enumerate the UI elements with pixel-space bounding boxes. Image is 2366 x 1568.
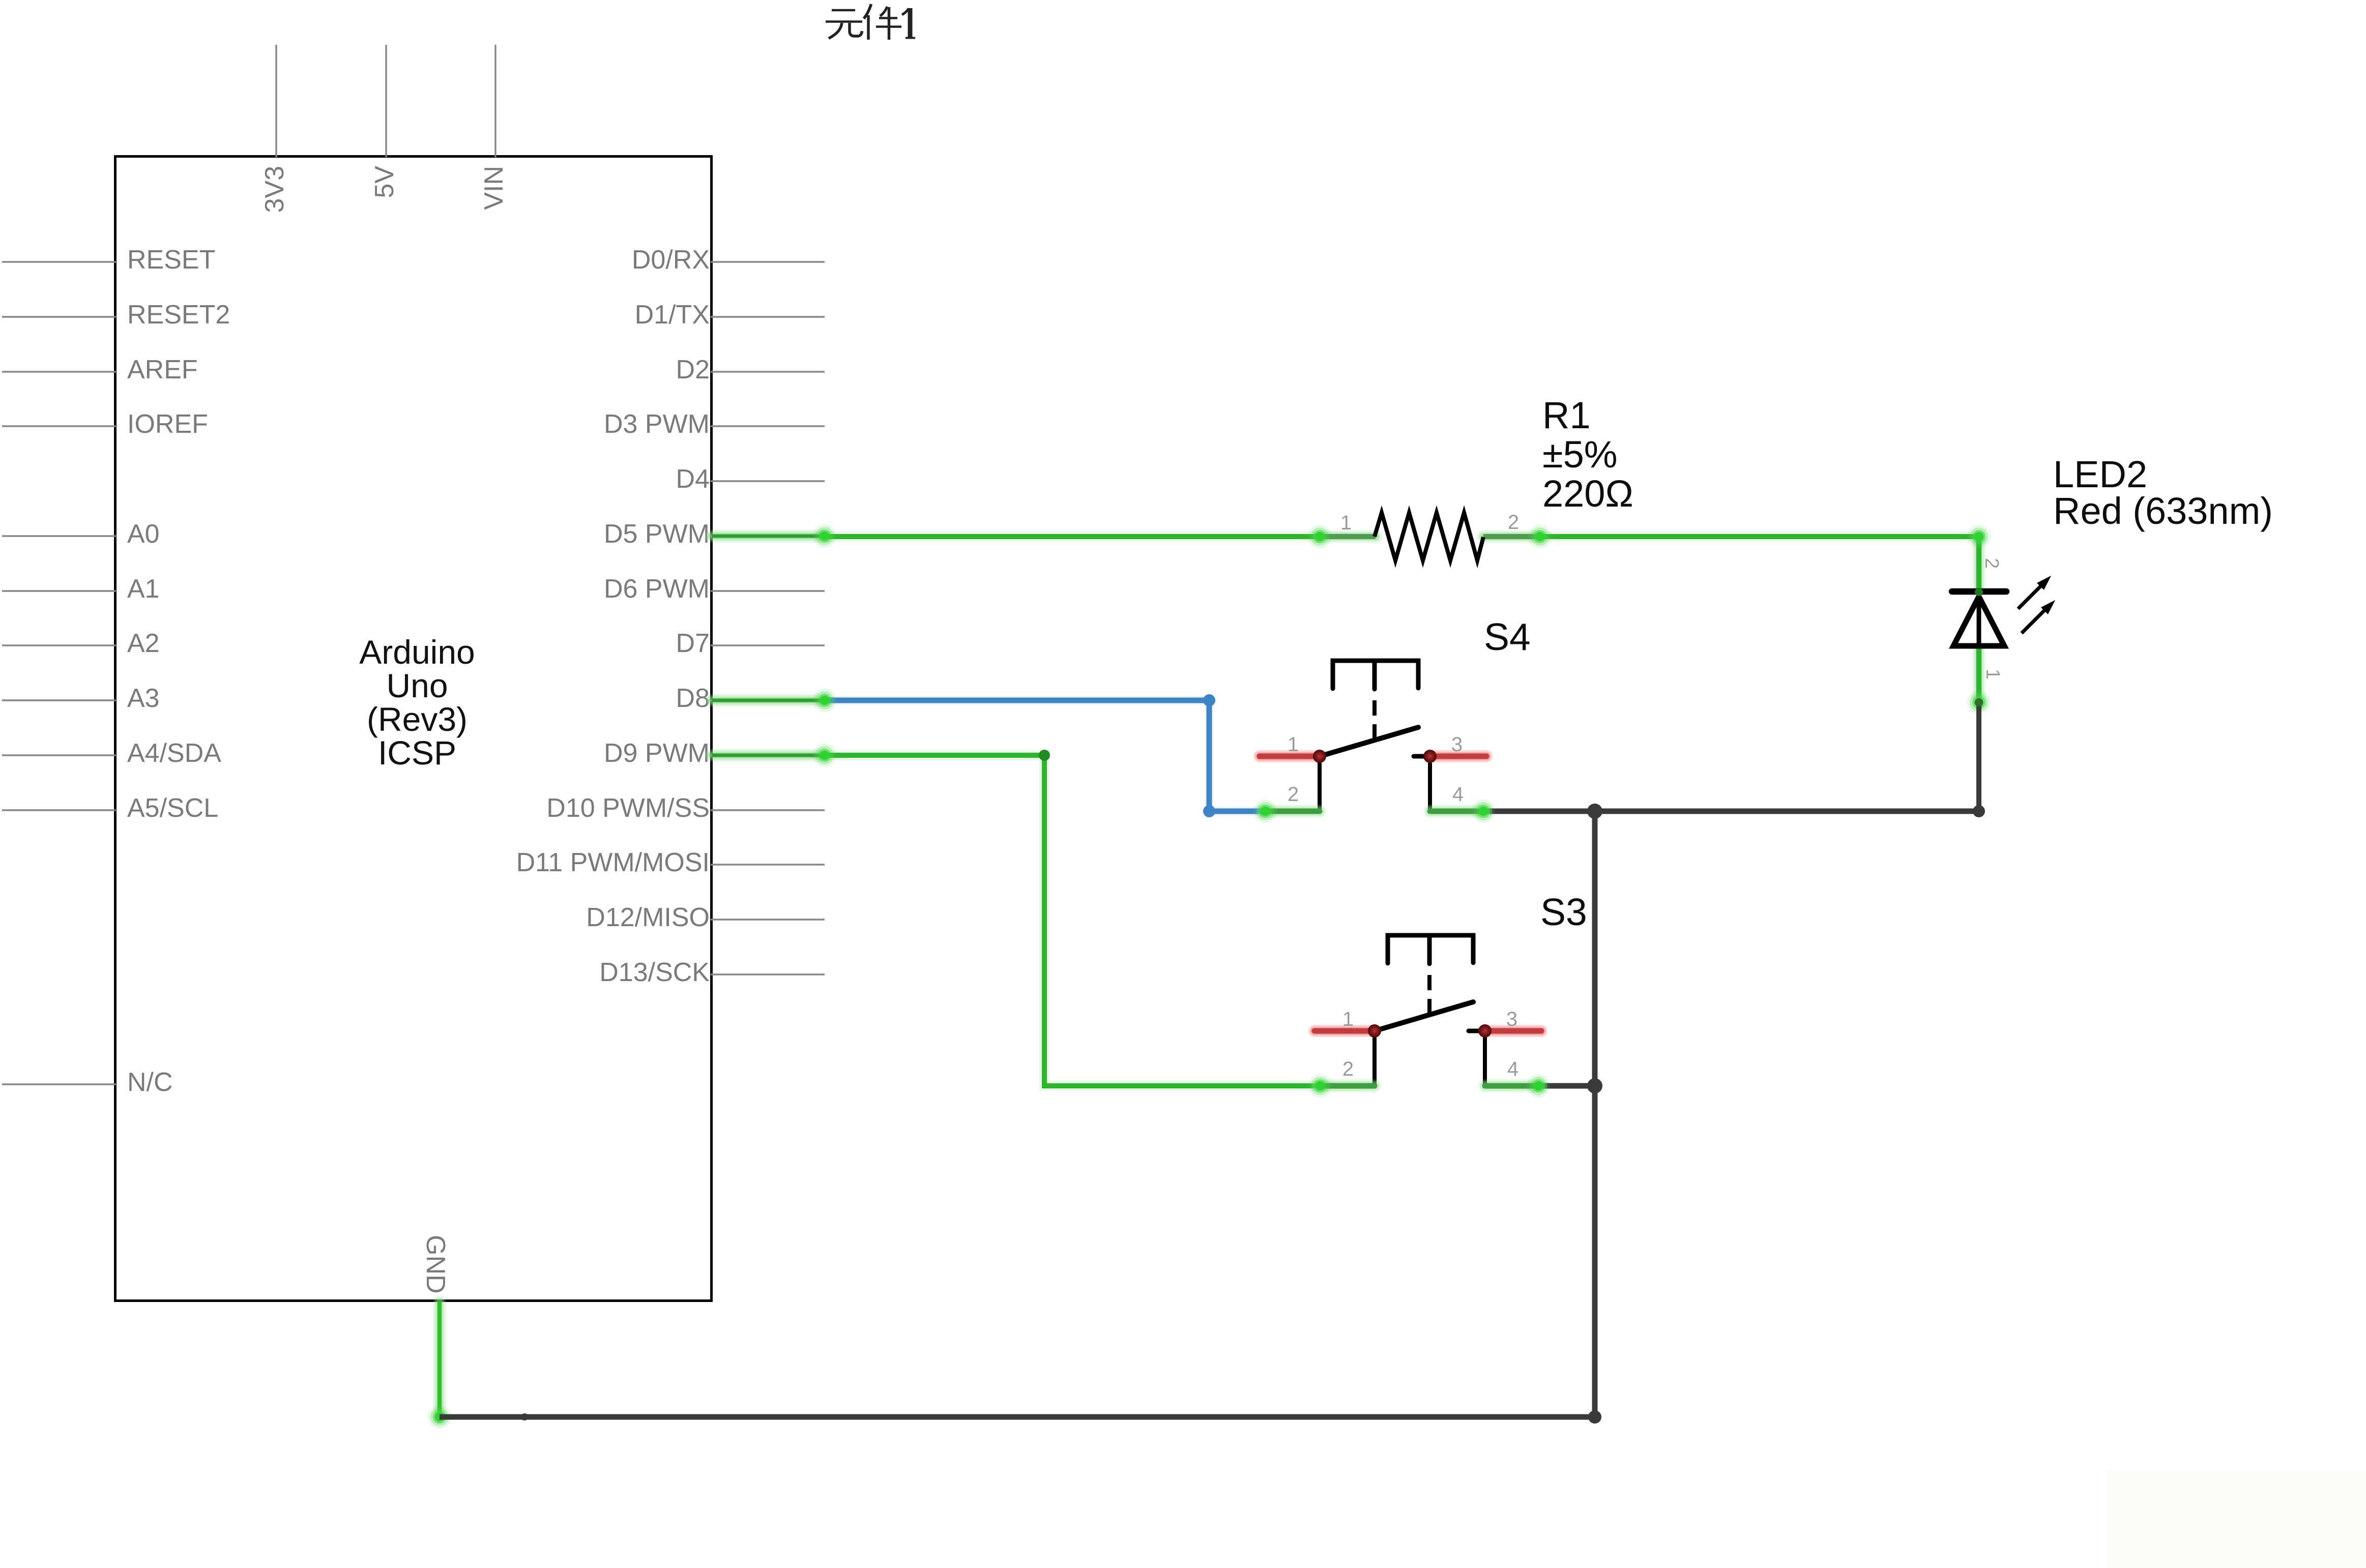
pin stub 3V3 (275, 45, 277, 157)
S4 internal link pin1-pin2 (1318, 756, 1322, 811)
Arduino Uno U1 body (115, 157, 712, 1301)
connection dot S3 pin4 (1527, 1074, 1550, 1098)
S3 internal link pin3-pin4 (1483, 1031, 1487, 1086)
resistor R1 pin 2 stub (1483, 530, 1540, 543)
pin stub D13/SCK (711, 973, 825, 975)
svg-text:N/C: N/C (127, 1068, 173, 1097)
pin stub D1/TX (711, 316, 825, 317)
svg-text:1: 1 (1340, 512, 1352, 534)
pin stub D0/RX (711, 261, 825, 262)
resistor R1 (1375, 513, 1483, 560)
pin stub 5V (385, 45, 387, 157)
S4 pin 4 stub (connected) (1430, 805, 1485, 818)
svg-text:RESET: RESET (127, 245, 215, 275)
svg-text:D2: D2 (676, 355, 710, 384)
wire S3 pin4 to junction (1540, 1083, 1595, 1089)
S4 pin 2 stub (connected) (1263, 805, 1320, 818)
S3 pin1 contact dot (1368, 1024, 1381, 1038)
svg-text:D10 PWM/SS: D10 PWM/SS (546, 793, 710, 823)
svg-text:D4: D4 (676, 464, 710, 494)
pin stub D10 PWM/SS (711, 809, 825, 811)
svg-text:3V3: 3V3 (260, 166, 289, 213)
junction LED corner (1973, 805, 1985, 817)
wire D9 green (825, 755, 1320, 1086)
svg-text:S4: S4 (1484, 615, 1531, 658)
svg-text:D7: D7 (676, 629, 710, 658)
glowing pin stub D8 (712, 694, 825, 707)
connection dot D5 stub end (813, 524, 836, 548)
wire R1 pin2 to LED2 pin2 (1540, 531, 1979, 542)
svg-text:4: 4 (1452, 783, 1464, 806)
pin stub D12/MISO (711, 919, 825, 920)
pin stub D8 (711, 699, 825, 701)
title text 元件1 (826, 4, 915, 40)
connection dot D9 stub end (813, 744, 836, 767)
svg-text:D9 PWM: D9 PWM (604, 738, 710, 768)
svg-text:S3: S3 (1540, 891, 1587, 933)
pin stub A2 (2, 644, 116, 646)
svg-text:D3 PWM: D3 PWM (604, 409, 710, 439)
S4 pin3 contact dot (1423, 750, 1437, 763)
S3 actuator dashed link (1427, 975, 1432, 1017)
S4 internal link pin3-pin4 (1428, 756, 1432, 811)
svg-text:A2: A2 (127, 629, 160, 658)
S3 pin 1 (unconnected, red) (1315, 1025, 1375, 1037)
connection dot GND stub end (428, 1405, 451, 1429)
svg-text:A1: A1 (127, 574, 160, 604)
S4 pin 1 (unconnected, red) (1260, 750, 1320, 762)
wire S4 row to LED corner (1485, 809, 1979, 814)
junction D8 corner top (1203, 694, 1215, 706)
wire junction column (1592, 811, 1598, 1417)
svg-text:D11 PWM/MOSI: D11 PWM/MOSI (516, 848, 710, 877)
connection dot LED2 pin1 (1967, 691, 1991, 714)
S4 pin1 contact dot (1313, 750, 1326, 763)
pin stub A5/SCL (2, 809, 116, 811)
wire join dot (bottom run) (521, 1413, 528, 1421)
pin stub D7 (711, 644, 825, 646)
svg-text:4: 4 (1507, 1058, 1518, 1080)
svg-text:2: 2 (1288, 783, 1299, 806)
S4 lever (1320, 727, 1418, 756)
svg-text:5V: 5V (370, 166, 399, 198)
glowing pin stub D5 (712, 529, 825, 543)
svg-text:3: 3 (1506, 1008, 1517, 1030)
svg-text:1: 1 (1288, 733, 1299, 756)
pin stub D2 (711, 371, 825, 372)
svg-text:IOREF: IOREF (127, 409, 208, 439)
glowing pin stub D9 (712, 749, 825, 762)
pin stub AREF (2, 371, 116, 372)
LED2 pin 2 stub (1972, 537, 1985, 590)
junction S3 row (1587, 1078, 1602, 1093)
connection dot R1 pin2 (1528, 525, 1552, 548)
LED2 light arrows (2018, 576, 2055, 633)
junction S4 row (1587, 804, 1602, 819)
svg-text:RESET2: RESET2 (127, 300, 230, 330)
pin stub D6 PWM (711, 590, 825, 591)
S3 button actuator bracket (1388, 935, 1473, 964)
svg-text:D6 PWM: D6 PWM (604, 574, 710, 604)
pin stub A3 (2, 699, 116, 701)
wire GND bottom run (440, 1414, 1595, 1420)
S3 pin3 contact dot (1478, 1024, 1492, 1038)
S3 internal link pin1-pin2 (1372, 1031, 1377, 1086)
wire LED2 pin1 down to corner (1976, 702, 1981, 811)
connection dot LED2 pin2 (1967, 525, 1991, 548)
svg-text:D12/MISO: D12/MISO (586, 903, 710, 932)
svg-text:D0/RX: D0/RX (632, 245, 710, 275)
S3 pin 3 (unconnected, red) (1485, 1025, 1541, 1037)
junction bottom corner (1588, 1410, 1601, 1424)
connection dot S3 pin2 (1308, 1074, 1332, 1098)
pin stub A0 (2, 535, 116, 537)
svg-text:3: 3 (1451, 733, 1463, 756)
S4 pin 3 (unconnected, red) (1430, 750, 1486, 762)
pin stub D4 (711, 480, 825, 482)
wire D8 blue (825, 700, 1262, 811)
pin stub D5 PWM (711, 535, 825, 537)
S4 fixed contact (1414, 754, 1430, 759)
pin stub A1 (2, 590, 116, 591)
svg-text:A5/SCL: A5/SCL (127, 793, 218, 823)
resistor R1 pin 1 stub (1320, 530, 1376, 543)
svg-text:AREF: AREF (127, 355, 198, 384)
pin stub GND (glowing) (433, 1302, 446, 1417)
pin stub RESET2 (2, 316, 116, 317)
S3 pin 4 stub (connected) (1485, 1079, 1540, 1092)
S4 actuator dashed link (1372, 700, 1377, 742)
wire D5 to R1 pin1 (825, 531, 1320, 542)
pin stub A4/SDA (2, 754, 116, 756)
svg-text:D5 PWM: D5 PWM (604, 519, 710, 549)
pin stub D3 PWM (711, 425, 825, 427)
pin stub VIN (494, 45, 496, 157)
pin stub IOREF (2, 425, 116, 427)
svg-text:VIN: VIN (479, 166, 509, 210)
connection dot D8 stub end (813, 689, 836, 712)
pin stub N/C (2, 1083, 116, 1085)
svg-text:A0: A0 (127, 519, 160, 549)
svg-text:D13/SCK: D13/SCK (599, 958, 710, 987)
svg-text:2: 2 (1342, 1058, 1354, 1080)
S4 button actuator bracket (1333, 661, 1418, 689)
pin stub D11 PWM/MOSI (711, 864, 825, 865)
connection dot S4 pin4 (1472, 800, 1495, 823)
S3 fixed contact (1469, 1029, 1485, 1033)
svg-text:D8: D8 (676, 684, 710, 713)
connection dot S4 pin2 (1253, 800, 1277, 823)
svg-text:A3: A3 (127, 684, 160, 713)
junction D9 corner (1039, 750, 1050, 761)
LED2 pin 1 stub (1972, 648, 1985, 702)
LED2 symbol (1952, 591, 2006, 646)
svg-text:2: 2 (1508, 511, 1519, 534)
svg-text:1: 1 (1342, 1008, 1354, 1030)
S3 lever (1375, 1002, 1473, 1031)
S3 pin 2 stub (connected) (1318, 1079, 1375, 1092)
svg-text:A4/SDA: A4/SDA (127, 738, 221, 768)
pin stub D9 PWM (711, 754, 825, 756)
svg-text:D1/TX: D1/TX (635, 300, 710, 330)
junction D8 corner bottom (1203, 805, 1215, 817)
svg-text:GND: GND (421, 1235, 450, 1294)
decorative faint panel (bottom-right) (2106, 1471, 2366, 1568)
svg-text:1: 1 (1982, 669, 2003, 679)
pin stub RESET (2, 261, 116, 262)
svg-text:2: 2 (1981, 558, 2002, 569)
connection dot R1 pin1 (1308, 525, 1331, 548)
